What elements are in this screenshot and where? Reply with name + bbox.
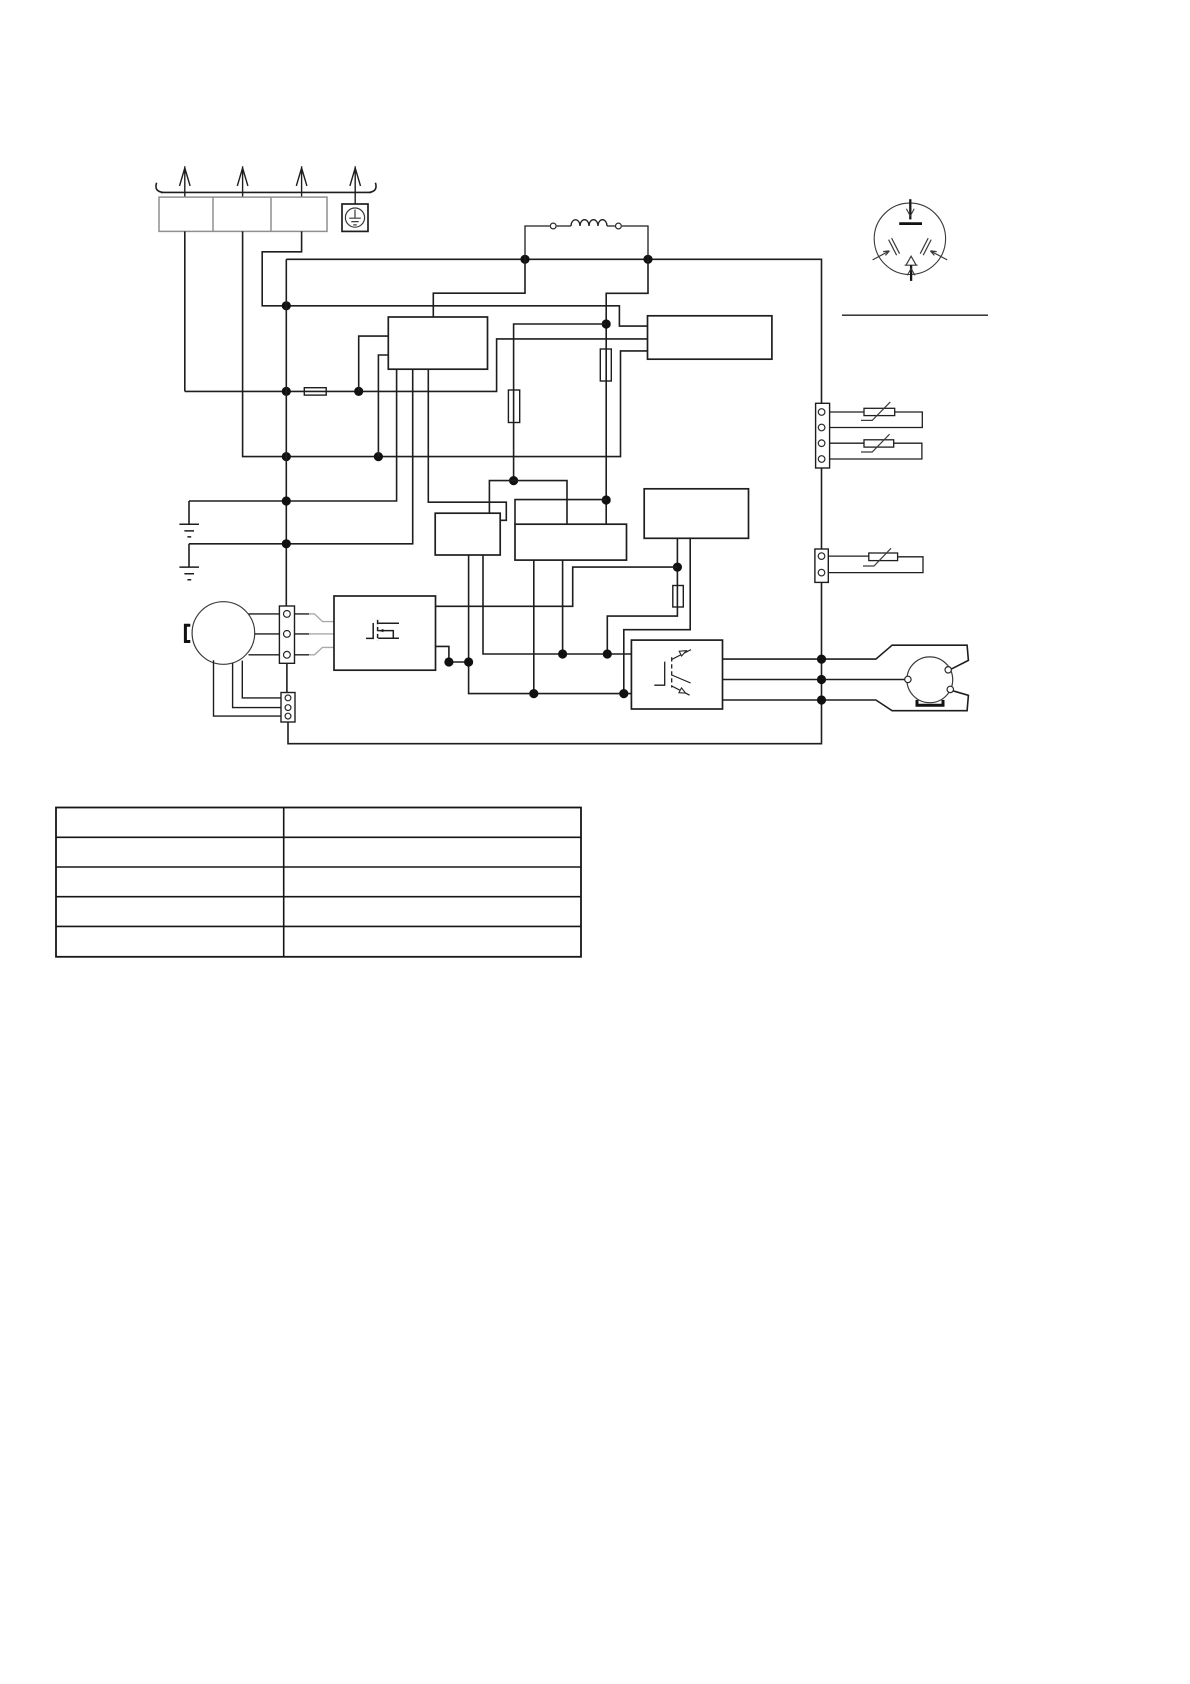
wire: inductor-left node down to box A top pin [433,259,525,317]
empty legend table [56,808,581,957]
fuse F1 (horizontal) [304,388,326,395]
ground symbol 1 [179,501,199,537]
wire: box A bottom pin x412 to ground 2 line [189,369,413,544]
wire: box C bottom pin x483 down to y654 line into box G [483,555,631,654]
node: inductor left tap [520,255,529,264]
wire: TB1 cell1 down to fuse line [184,231,186,391]
node: junction (513.6,481) [509,476,518,485]
node: bus tap on y501 line [282,496,291,505]
node: y324 line end on fuse-F2 wire [602,319,611,328]
thermistor TH2 loop [830,443,922,459]
wire: box A bottom pin x428 to box C right pin [428,369,506,520]
node: bus tap on fuse line [282,387,291,396]
connector CN4 (2-pin) [815,549,828,582]
brace over mains terminal block [156,183,376,193]
node: rectifier feed node (606,500) [602,495,611,504]
fuse F4 [673,586,684,608]
compressor M2 shell [907,657,953,703]
wire: box A bottom pin x396 to ground 1 line [189,369,397,501]
connector CN3 (4-pin) [816,403,830,468]
terminal block TB1 [159,197,327,231]
wire: U7 mid output to compressor terminal [723,679,906,681]
wire: U6 lower output to node pair [436,646,469,662]
node: (607,654) [603,649,612,658]
wire: box A left pin y336 to fuse line [359,336,389,391]
compressor M2 base mark [917,700,943,705]
node: 4-way junction at (286,306) [282,301,291,310]
wire: right bus upper segment between connectors [821,468,823,549]
protective earth symbol box [342,204,368,231]
wire: line y324 over to fuse F3 branch [514,324,607,481]
box D (mid control block) [515,524,627,560]
phototransistor symbol inside U7 [654,650,691,696]
wire: box D top link y500 [515,500,606,525]
wire: motor phase leads to connector CN1 [249,614,280,655]
thermistor TH2 [861,434,894,452]
node: inductor right tap [643,255,652,264]
wire: line y259 feeding right-hand bus [286,259,821,403]
node: box A tap on y457 line [374,452,383,461]
thermistor TH3 loop [828,556,923,573]
inverter box U6 [334,596,436,670]
wire: box C bottom pin x468 down to y694 line into box G [469,555,632,694]
node: (534,694) [529,689,538,698]
node: bus tap bottom phase [817,695,826,704]
box E (right control block) [644,489,748,539]
wire: inductor-right node down to box D top pin (through fuse F2) [606,259,648,524]
wire: CN1 stub leads [295,614,310,655]
wire: motor sensor leads to connector CN2 [214,660,282,716]
node: bus tap on y457 line [282,452,291,461]
fuse F3 [508,390,519,423]
motor M1 brush mark [185,625,190,641]
ground symbol 2 [179,544,199,580]
compressor M2 terminals [905,667,954,693]
node: bus tap on y544 line [282,539,291,548]
wire: line y306 to box B pin 1 [286,306,647,326]
wire: vertical bus x286 [285,259,287,606]
node: (469,662) [464,657,473,666]
wire: box E pin2 down-around to y694 line [624,538,690,693]
motor M1 [192,602,255,665]
wire: U6 output to fuse-F4 node [436,567,678,606]
power plug symbol P1 [873,199,948,281]
box B (upper right control block) [648,316,772,359]
node: (624,694) [619,689,628,698]
box C (small control block) [435,513,500,555]
node: bus tap top phase [817,655,826,664]
node: (449,662) [444,657,453,666]
fuse F2 [600,349,611,381]
mains arrow 1 [180,166,191,197]
wire: CN1 to CN2 link [286,663,288,692]
wire: box D bottom pin x562 [562,560,564,654]
crimp splice wires to inverter [309,614,334,655]
wire: box D bottom pin x534 [533,560,535,694]
wire: U7 top output to compressor terminal [723,645,969,669]
mains arrow 4 (protective earth) [350,166,361,204]
driver box U7 [631,640,722,709]
node: bus tap mid phase [817,675,826,684]
node: box A tap on fuse line [354,387,363,396]
IGBT symbol inside U6 [366,620,399,641]
mains arrow 2 [237,166,248,197]
connector CN1 (3-pin) [279,606,294,663]
node: (677.5,567) [673,563,682,572]
thermistor TH1 loop [830,412,923,428]
wire: fuse line y391 to box B upper-mid pin [185,339,648,392]
wire: y481 line to box C top and box D top [489,481,567,525]
wire: TB1 cell3 jog down to main node [262,231,301,305]
wire: box A left pin y355 to y457 line [378,355,388,457]
wire: U7 bottom output to compressor terminal [723,690,969,711]
box A (power supply block) [388,317,487,369]
thermistor TH3 [863,548,898,566]
connector CN2 (3-pin) [281,693,295,723]
thermistor TH1 [861,402,895,421]
mains arrow 3 [296,166,307,197]
divider line under plug [842,314,988,316]
inductor L1 (line filter choke) [525,220,648,260]
node: (562,654) [558,649,567,658]
wire: box E pin1 through fuse F4 to y654 line [607,538,677,654]
wire: TB1 cell2 down to neutral line y457 and box B pin 3 [243,231,648,456]
wire: right bus lower segment and bottom return line [288,582,822,743]
